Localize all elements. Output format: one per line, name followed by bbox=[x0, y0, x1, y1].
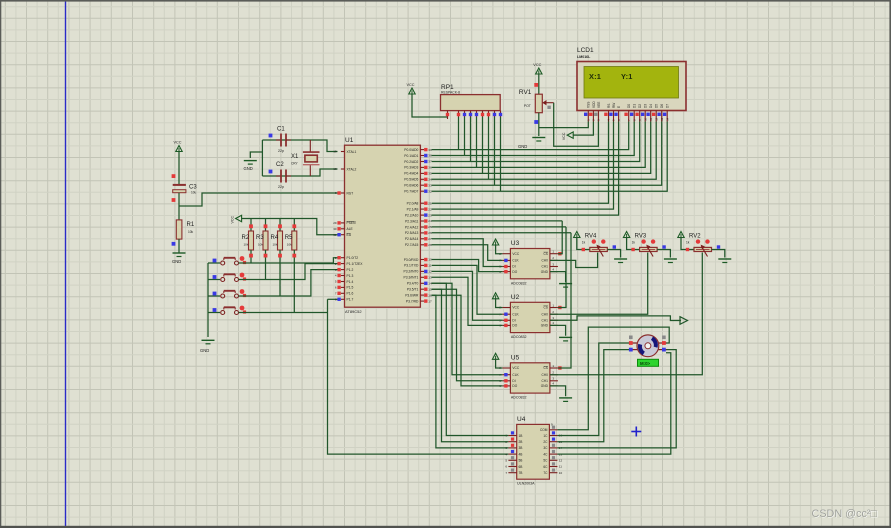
svg-text:ULN2003A: ULN2003A bbox=[517, 482, 535, 486]
svg-text:4C: 4C bbox=[543, 452, 548, 456]
pin U4 7B bbox=[505, 469, 522, 476]
motor wire 3C to right-bottom bbox=[557, 350, 676, 448]
wire P3.2 to U2 DI bbox=[432, 271, 503, 320]
pin U4 7C bbox=[543, 469, 562, 476]
wire P0.3 to LCD D3 bbox=[432, 122, 646, 168]
wire RP1 pin4 to P0.2 bbox=[470, 117, 472, 162]
logic state square button 3 left bbox=[213, 292, 217, 296]
svg-text:RV1: RV1 bbox=[519, 89, 532, 96]
pin U4 2B bbox=[505, 438, 522, 445]
arrow node motor supply bbox=[680, 317, 688, 325]
pin LCD RS bbox=[604, 104, 611, 122]
wire P3.3 to U2 DO bbox=[432, 277, 503, 325]
svg-text:10k: 10k bbox=[188, 230, 194, 234]
logic state squares motor right bbox=[662, 336, 666, 340]
wire C1 top rail bbox=[262, 140, 337, 152]
svg-text:GND: GND bbox=[541, 384, 549, 388]
svg-text:VSS: VSS bbox=[587, 102, 591, 108]
svg-text:CH1: CH1 bbox=[542, 319, 549, 323]
wire CS U5 bbox=[558, 233, 571, 368]
pin U4 5B bbox=[505, 456, 522, 463]
ground U3 bbox=[559, 284, 572, 288]
power VCC RP1 bbox=[407, 83, 416, 94]
logic state square RV1 bottom bbox=[534, 120, 538, 124]
pin LCD D4 bbox=[646, 104, 653, 122]
ground U5 bbox=[559, 398, 572, 402]
svg-text:P0.6/AD6: P0.6/AD6 bbox=[404, 184, 418, 188]
power VCC RV1 bbox=[533, 63, 542, 74]
wire P0.5 to LCD D5 bbox=[432, 122, 657, 180]
svg-text:22p: 22p bbox=[278, 149, 284, 153]
logic state square button 4 left bbox=[213, 308, 217, 312]
svg-text:P3.2/INT0: P3.2/INT0 bbox=[404, 270, 419, 274]
svg-text:CLK: CLK bbox=[512, 373, 519, 377]
svg-text:RESPACK-8: RESPACK-8 bbox=[441, 91, 460, 95]
pin U3 4 bbox=[550, 271, 558, 273]
potentiometer RV3 bbox=[640, 239, 658, 256]
pin P3.6 bbox=[420, 294, 424, 296]
svg-text:39: 39 bbox=[428, 148, 432, 152]
svg-text:ADC0832: ADC0832 bbox=[511, 281, 527, 285]
wire R5 bottom to button row bbox=[293, 250, 295, 313]
svg-text:3B: 3B bbox=[519, 446, 523, 450]
op-amp U4 ULN2003A body bbox=[517, 416, 550, 486]
wire button 3 left bbox=[208, 295, 220, 297]
svg-text:P2.3/A11: P2.3/A11 bbox=[405, 219, 418, 223]
svg-text:6B: 6B bbox=[519, 465, 523, 469]
svg-text:D3: D3 bbox=[644, 104, 648, 108]
wire gnd branch bbox=[250, 152, 262, 158]
svg-text:22p: 22p bbox=[278, 185, 284, 189]
svg-text:P3.4/T0: P3.4/T0 bbox=[407, 282, 419, 286]
svg-text:X1: X1 bbox=[291, 154, 299, 160]
svg-text:D2: D2 bbox=[638, 104, 642, 108]
pin U4 5C bbox=[543, 456, 562, 463]
wire P0.2 to LCD D2 bbox=[432, 122, 640, 162]
svg-text:16: 16 bbox=[428, 293, 432, 297]
svg-text:17: 17 bbox=[428, 299, 432, 303]
svg-text:24: 24 bbox=[428, 219, 432, 223]
pin P1.3 bbox=[341, 275, 345, 277]
logic state square button 2 right bbox=[243, 277, 246, 280]
svg-text:P2.7/A15: P2.7/A15 bbox=[405, 243, 419, 247]
pin P0.1 bbox=[420, 155, 424, 157]
pin RP1 2 bbox=[458, 111, 460, 117]
resistor R1 bbox=[176, 220, 195, 239]
svg-text:P1.5: P1.5 bbox=[347, 286, 354, 290]
pin P1.6 bbox=[341, 292, 345, 294]
wire vcc to RV1 bbox=[538, 74, 540, 94]
button SW1 bbox=[221, 256, 245, 265]
pin RP1 6 bbox=[482, 111, 484, 117]
svg-text:VCC: VCC bbox=[407, 83, 415, 87]
svg-text:36: 36 bbox=[428, 166, 432, 170]
svg-text:1k: 1k bbox=[582, 241, 586, 245]
wire reset to RST pin bbox=[179, 193, 338, 206]
wire vcc to C3 bbox=[178, 152, 180, 185]
svg-text:VCC: VCC bbox=[533, 63, 541, 67]
svg-text:D1: D1 bbox=[633, 104, 637, 108]
wire P0.7 to LCD D7 bbox=[432, 122, 668, 192]
pin U2 8 bbox=[502, 307, 510, 309]
svg-text:18: 18 bbox=[333, 167, 337, 171]
svg-text:P0.4/AD4: P0.4/AD4 bbox=[404, 172, 418, 176]
pin RP1 7 bbox=[488, 111, 490, 117]
wire LCD VEE to RV1 wiper bbox=[554, 103, 599, 147]
motor wire 4C to right-bottom 2 bbox=[557, 353, 670, 454]
wire button row2 to P1.1 bbox=[239, 264, 338, 280]
wire P3.4 to ULN 1B bbox=[432, 283, 509, 435]
wire RP1 pin7 to P0.5 bbox=[488, 117, 490, 179]
pin LCD D5 bbox=[652, 104, 659, 122]
svg-text:XTAL1: XTAL1 bbox=[347, 150, 357, 154]
pin U2 2 bbox=[550, 313, 558, 315]
svg-text:11: 11 bbox=[559, 465, 562, 469]
wire button row3 to P1.2 bbox=[239, 270, 338, 296]
svg-text:RV3: RV3 bbox=[635, 234, 647, 240]
power VCC reset bbox=[174, 141, 183, 152]
pin P0.3 bbox=[420, 166, 424, 168]
svg-text:VCC: VCC bbox=[174, 141, 182, 145]
button SW4 bbox=[221, 306, 245, 315]
pin U4 3C bbox=[543, 444, 562, 451]
wire R3 top bbox=[265, 219, 267, 232]
wire vcc rail to EA bbox=[242, 219, 338, 235]
wire vcc RV3 bbox=[627, 237, 640, 250]
pin LCD D3 bbox=[641, 104, 648, 122]
ground buttons bbox=[200, 340, 215, 353]
pin U5 5 bbox=[502, 380, 510, 382]
wire GND U5 bbox=[550, 386, 566, 396]
wire button 4 left bbox=[208, 312, 220, 314]
pin U5 2 bbox=[550, 374, 558, 376]
wire C2 bottom rail bbox=[262, 169, 337, 176]
logic state square R3 bottom bbox=[264, 254, 268, 258]
svg-text:P2.1/A9: P2.1/A9 bbox=[407, 207, 419, 211]
pin RP1 9 bbox=[500, 111, 502, 117]
logic state square R2 bottom bbox=[249, 254, 253, 258]
logic state square R5 bottom bbox=[292, 254, 296, 258]
pin U4 4C bbox=[543, 450, 562, 457]
svg-text:3C: 3C bbox=[543, 446, 548, 450]
pin EA bbox=[341, 234, 345, 236]
wire RV1 bottom to gnd bbox=[538, 113, 540, 136]
logic state square RV3 left bbox=[631, 248, 634, 251]
wire P2.2 to LCD E bbox=[432, 122, 619, 216]
pin P2.4 bbox=[420, 226, 424, 228]
svg-text:2C: 2C bbox=[543, 440, 548, 444]
wire GND U3 bbox=[550, 272, 566, 282]
wire RP1 pin8 to P0.6 bbox=[494, 117, 496, 185]
svg-text:PSEN: PSEN bbox=[347, 221, 357, 225]
potentiometer RV4 bbox=[590, 239, 608, 256]
logic state squares motor left bbox=[629, 336, 633, 340]
pin ALE bbox=[341, 228, 345, 230]
pin RP1 3 bbox=[464, 111, 466, 117]
wire vcc to RP1 pin1 bbox=[412, 94, 448, 117]
pin RST bbox=[341, 192, 345, 194]
svg-text:P1.3: P1.3 bbox=[347, 274, 354, 278]
pin P1.1 bbox=[341, 263, 345, 265]
pin U3 3 bbox=[550, 266, 558, 268]
capacitor C1 bbox=[276, 127, 291, 154]
logic state square R5 top bbox=[292, 224, 296, 228]
pin U3 6 bbox=[502, 271, 510, 273]
power VCC pullups bbox=[231, 215, 242, 223]
motor wire COM to right-top bbox=[557, 327, 669, 430]
pin P2.3 bbox=[420, 220, 424, 222]
logic state square RV3 right bbox=[662, 245, 665, 248]
button SW2 bbox=[221, 273, 245, 282]
pin U2 3 bbox=[550, 319, 558, 321]
wire P0.0 to LCD D0 bbox=[432, 122, 629, 150]
svg-text:4B: 4B bbox=[519, 452, 523, 456]
svg-text:13: 13 bbox=[428, 276, 432, 280]
svg-text:26: 26 bbox=[428, 231, 432, 235]
power VCC RV4 bbox=[574, 232, 580, 238]
svg-text:14: 14 bbox=[428, 282, 432, 286]
svg-text:D5: D5 bbox=[655, 104, 659, 108]
svg-text:C2: C2 bbox=[276, 162, 284, 168]
pin RP1 5 bbox=[476, 111, 478, 117]
pin U5 1 bbox=[550, 367, 558, 369]
svg-text:U1: U1 bbox=[345, 137, 354, 144]
pin P0.6 bbox=[420, 184, 424, 186]
svg-text:DI: DI bbox=[512, 265, 515, 269]
svg-text:15: 15 bbox=[428, 287, 432, 291]
svg-text:D6: D6 bbox=[660, 104, 664, 108]
pin U2 6 bbox=[502, 324, 510, 326]
wire gnd RV4 bbox=[607, 250, 620, 258]
wire P3.1 to U2 CLK bbox=[432, 265, 503, 314]
wire vcc U3 bbox=[496, 245, 503, 254]
svg-text:P3.7/RD: P3.7/RD bbox=[406, 299, 419, 303]
button SW3 bbox=[221, 289, 245, 298]
svg-text:P1.0/T2: P1.0/T2 bbox=[347, 256, 359, 260]
logic state square C1 bbox=[269, 134, 273, 138]
lcd LCD1 LM016L bbox=[577, 47, 686, 111]
pin LCD D1 bbox=[630, 104, 637, 122]
svg-text:E: E bbox=[617, 106, 621, 108]
svg-text:P3.3/INT1: P3.3/INT1 bbox=[404, 276, 419, 280]
svg-text:RS: RS bbox=[607, 104, 611, 108]
svg-text:P1.6: P1.6 bbox=[347, 292, 354, 296]
svg-text:VCC: VCC bbox=[512, 252, 519, 256]
pin P0.7 bbox=[420, 190, 424, 192]
canvas border bbox=[0, 0, 891, 2]
svg-text:DO: DO bbox=[512, 384, 517, 388]
svg-text:U3: U3 bbox=[511, 240, 520, 247]
pin P1.2 bbox=[341, 269, 345, 271]
svg-text:RST: RST bbox=[347, 191, 354, 195]
ground U2 bbox=[559, 337, 572, 341]
svg-text:P0.5/AD5: P0.5/AD5 bbox=[404, 178, 418, 182]
svg-text:35: 35 bbox=[428, 172, 432, 176]
svg-text:38: 38 bbox=[428, 154, 432, 158]
svg-text:R5: R5 bbox=[285, 235, 293, 241]
wire RP1 pin6 to P0.4 bbox=[482, 117, 484, 173]
wire P3.6 to ULN 3B bbox=[432, 295, 509, 448]
wire gnd RV3 bbox=[657, 250, 670, 258]
svg-text:10: 10 bbox=[559, 471, 563, 475]
svg-text:19: 19 bbox=[333, 150, 337, 154]
logic state square R4 bottom bbox=[278, 254, 282, 258]
svg-text:CH0: CH0 bbox=[542, 373, 549, 377]
svg-text:32: 32 bbox=[428, 189, 432, 193]
wire P2 row to CS U5 bbox=[432, 232, 571, 234]
svg-text:R3: R3 bbox=[256, 235, 264, 241]
pin P2.2 bbox=[420, 214, 424, 216]
power VCC RV2 bbox=[678, 232, 684, 238]
resistor R3 bbox=[256, 231, 268, 250]
svg-text:DO: DO bbox=[512, 324, 517, 328]
wire U3 CH0 to RV4 wiper bbox=[550, 253, 598, 268]
svg-text:10k: 10k bbox=[287, 243, 292, 247]
svg-text:1k: 1k bbox=[686, 241, 690, 245]
logic state square rst2 bbox=[172, 198, 176, 202]
svg-text:LCD1: LCD1 bbox=[577, 47, 594, 54]
svg-text:U2: U2 bbox=[511, 294, 520, 301]
svg-text:P3.0/RXD: P3.0/RXD bbox=[404, 258, 419, 262]
svg-text:GND: GND bbox=[518, 144, 527, 149]
svg-text:P3.5/T1: P3.5/T1 bbox=[407, 288, 419, 292]
svg-text:CS: CS bbox=[543, 366, 547, 370]
pin PSEN bbox=[341, 222, 345, 224]
svg-text:CH0: CH0 bbox=[542, 312, 549, 316]
wire P0.1 to LCD D1 bbox=[432, 122, 635, 156]
svg-text:ADC0832: ADC0832 bbox=[511, 335, 527, 339]
wire RV2 wiper to U5 CH0 bbox=[550, 253, 702, 375]
svg-text:7B: 7B bbox=[519, 471, 523, 475]
pin U5 7 bbox=[502, 374, 510, 376]
svg-text:P1.1/T2EX: P1.1/T2EX bbox=[347, 262, 364, 266]
logic state square button 3 right bbox=[243, 294, 246, 297]
pin RP1 common bbox=[447, 111, 449, 119]
svg-text:R1: R1 bbox=[187, 222, 195, 228]
resistor pack RP1 bbox=[441, 84, 501, 111]
svg-text:GND: GND bbox=[172, 259, 181, 264]
svg-text:DO: DO bbox=[512, 270, 517, 274]
wire P2.6 to U3 DI bbox=[432, 239, 503, 267]
wire P2.1 to LCD RW bbox=[432, 122, 614, 210]
svg-text:10k: 10k bbox=[273, 243, 278, 247]
logic state square rst3 bbox=[172, 242, 176, 246]
wire button row4 to P1.7 and ULN 4B bbox=[239, 312, 328, 314]
wire buttons common left bbox=[207, 263, 209, 337]
svg-text:12: 12 bbox=[428, 270, 432, 274]
motor wire 2C to left-bottom bbox=[557, 350, 629, 442]
wire P2.0 to LCD RS bbox=[432, 122, 609, 204]
pin P3.0 bbox=[420, 259, 424, 261]
wire R4 top bbox=[279, 219, 281, 232]
pin U2 5 bbox=[502, 319, 510, 321]
pin P1.7 bbox=[341, 298, 345, 300]
wire LCD VSS to RV1 gnd bbox=[539, 122, 589, 128]
wire R5 top bbox=[293, 219, 295, 232]
svg-text:VCC: VCC bbox=[562, 132, 566, 140]
pin LCD E bbox=[614, 106, 621, 122]
pin U3 7 bbox=[502, 259, 510, 261]
ground RV2 bbox=[718, 259, 731, 263]
pin LCD D2 bbox=[635, 104, 642, 122]
logic state square rst1 bbox=[172, 174, 176, 178]
wire R1 to gnd bbox=[178, 239, 180, 253]
svg-text:Y:1: Y:1 bbox=[621, 72, 633, 81]
wire vcc RV4 bbox=[577, 237, 590, 250]
svg-text:R2: R2 bbox=[242, 235, 250, 241]
wire P3.4 to U5 CLK bbox=[432, 283, 503, 374]
wire C3 to R1 bbox=[178, 193, 180, 220]
wire left vertical C1-C2 bbox=[261, 140, 263, 176]
pin XTAL2 bbox=[341, 168, 345, 170]
wire RV3 wiper to U2 CH0 bbox=[550, 253, 648, 315]
svg-text:CRY: CRY bbox=[291, 162, 299, 166]
pin U5 3 bbox=[550, 380, 558, 382]
wire P0.6 to LCD D6 bbox=[432, 122, 662, 186]
svg-text:GND: GND bbox=[244, 166, 253, 171]
svg-text:AT89C52: AT89C52 bbox=[345, 309, 362, 314]
logic state square RV1 top bbox=[534, 83, 538, 87]
svg-text:1C: 1C bbox=[543, 434, 548, 438]
node marker blue cross bbox=[631, 427, 641, 437]
wire vcc RV2 bbox=[681, 237, 694, 250]
pin XTAL1 bbox=[341, 151, 345, 153]
svg-text:CLK: CLK bbox=[512, 259, 519, 263]
svg-text:COM: COM bbox=[540, 428, 548, 432]
pin LCD D6 bbox=[657, 104, 664, 122]
svg-text:P2.2/A10: P2.2/A10 bbox=[405, 213, 419, 217]
svg-text:RW: RW bbox=[612, 103, 616, 108]
svg-text:P1.4: P1.4 bbox=[347, 280, 354, 284]
logic state square RV2 right bbox=[717, 245, 720, 248]
svg-text:D4: D4 bbox=[649, 104, 653, 108]
svg-text:P0.2/AD2: P0.2/AD2 bbox=[404, 160, 418, 164]
logic state square R4 top bbox=[278, 224, 282, 228]
ground RV3 bbox=[664, 259, 677, 263]
svg-text:U4: U4 bbox=[517, 416, 526, 423]
svg-text:31: 31 bbox=[333, 233, 337, 237]
wire GND U2 bbox=[550, 325, 566, 335]
svg-text:1k: 1k bbox=[632, 241, 636, 245]
wire CS U3 bbox=[558, 221, 562, 254]
svg-text:XTAL2: XTAL2 bbox=[347, 167, 357, 171]
svg-text:VEE: VEE bbox=[597, 102, 601, 108]
wire RP1 pin9 to P0.7 bbox=[500, 117, 502, 191]
svg-text:CS: CS bbox=[543, 252, 547, 256]
power VCC VDD bbox=[562, 132, 573, 140]
wire RP1 pin3 to P0.1 bbox=[464, 117, 466, 156]
svg-text:D0: D0 bbox=[627, 104, 631, 108]
svg-text:P0.0/AD0: P0.0/AD0 bbox=[404, 148, 418, 152]
svg-text:CH1: CH1 bbox=[542, 265, 549, 269]
svg-text:CS: CS bbox=[543, 306, 547, 310]
power VCC U3 bbox=[492, 239, 498, 245]
svg-text:5C: 5C bbox=[543, 459, 548, 463]
wire P3.6 to U5 DO bbox=[432, 295, 503, 386]
ground RV4 bbox=[614, 259, 627, 263]
pin P3.2 bbox=[420, 270, 424, 272]
svg-text:P2.0/A8: P2.0/A8 bbox=[407, 202, 419, 206]
pin P2.0 bbox=[420, 202, 424, 204]
wire R2 top bbox=[250, 219, 252, 232]
pin P1.0 bbox=[341, 257, 345, 259]
pin U2 4 bbox=[550, 324, 558, 326]
motor wire 1C to left-top bbox=[557, 343, 629, 436]
wire P0.4 to LCD D4 bbox=[432, 122, 651, 174]
svg-text:DI: DI bbox=[512, 379, 515, 383]
pin U4 3B bbox=[505, 444, 522, 451]
pin P2.6 bbox=[420, 238, 424, 240]
